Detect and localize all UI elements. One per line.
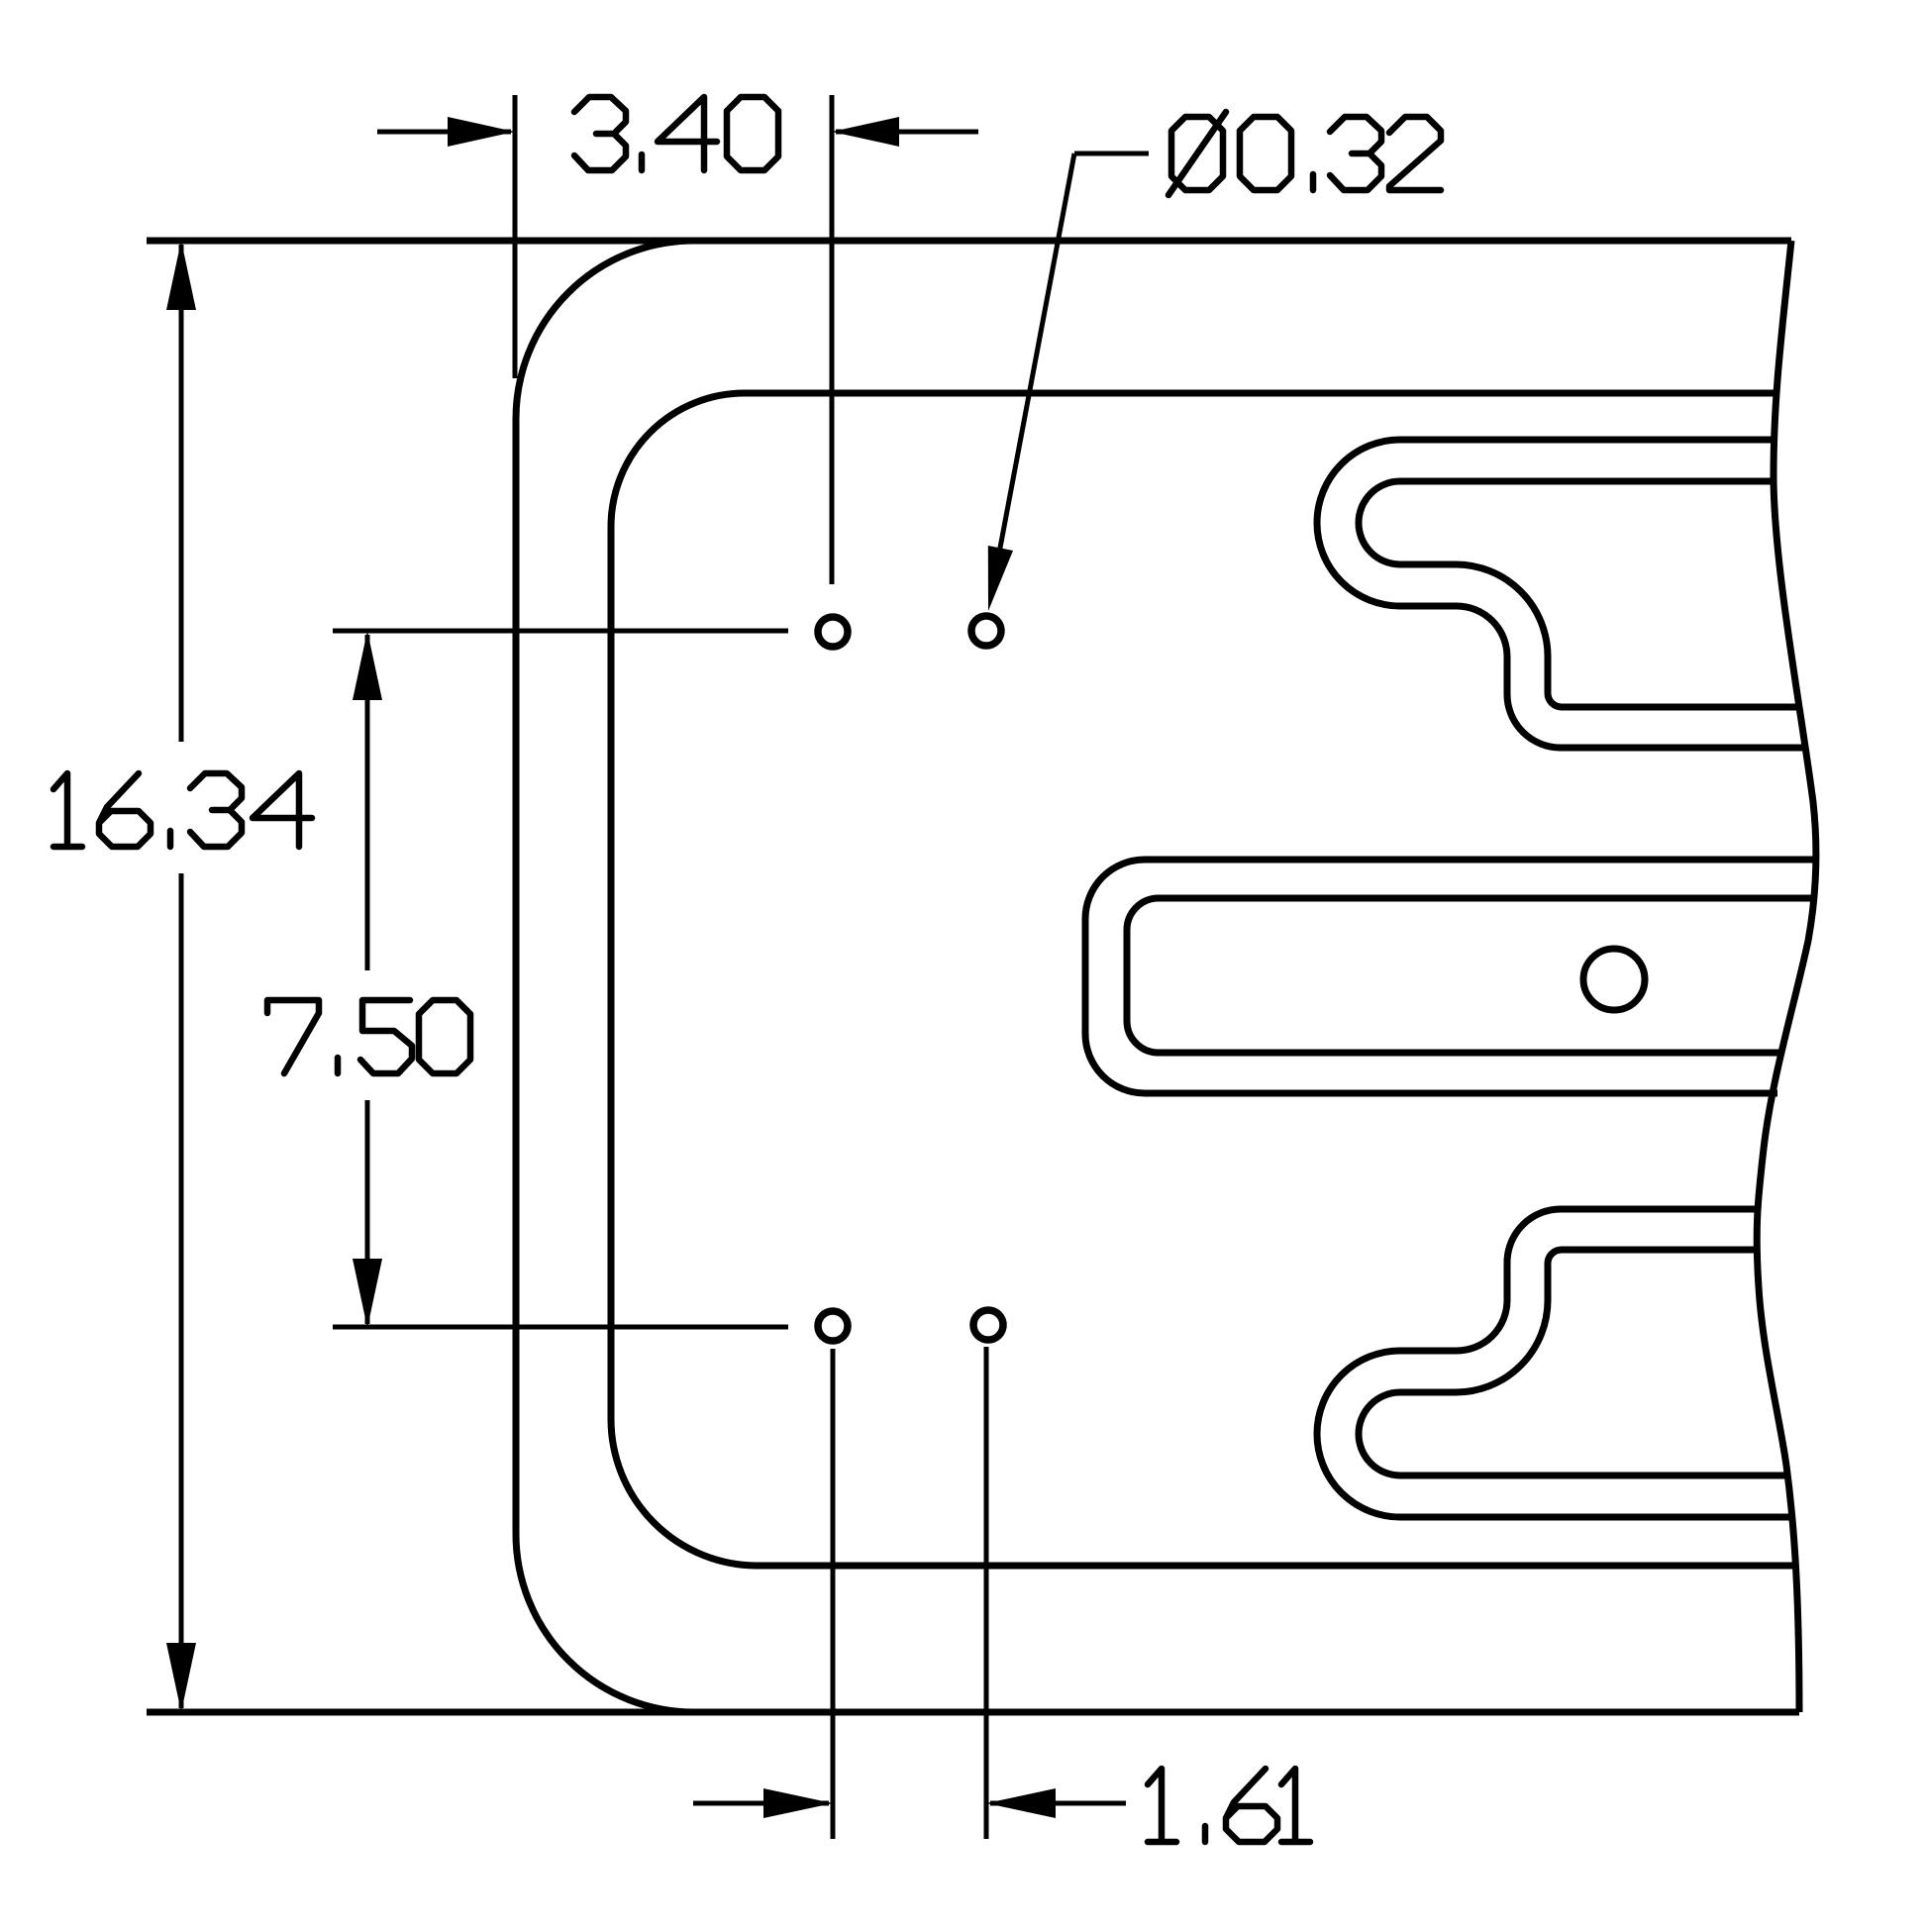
dim 3.40 left dimension line and arrow (377, 130, 511, 135)
hole lower-left (818, 1311, 848, 1341)
slot 2 circle hole (1583, 949, 1645, 1010)
dim 1.61 left extension line (831, 1349, 836, 1839)
dim text 1.61 (1148, 1769, 1310, 1842)
dim 7.50 dimension line lower segment and down arrow (365, 1100, 370, 1324)
dim text 3.40 (574, 97, 778, 170)
dim 16.34 dimension line lower segment and down arrow (179, 873, 184, 1708)
dim 3.40 left extension line (513, 95, 518, 378)
slot 2 inner contour (1127, 898, 1814, 1053)
break line (wavy right edge) (1757, 241, 1816, 1712)
leader Ø0.32 arrowhead (988, 546, 1013, 611)
dim 7.50 dimension line upper segment and up arrow (365, 635, 370, 970)
slot 3 inner contour (1359, 1250, 1784, 1475)
dim 16.34 top extension line (147, 238, 693, 245)
slot 1 outer contour (upper right stepped cutout) (1317, 440, 1806, 748)
dim 3.40 right extension line (830, 95, 835, 584)
dim text 16.34 (53, 773, 312, 847)
dim 1.61 left dimension line and arrow (693, 1801, 829, 1806)
dim 1.61 right dimension line and arrow (990, 1801, 1126, 1806)
slot 2 outer contour (middle slot) (1085, 860, 1815, 1093)
part outer profile (top edge, rounded left corners, bottom edge) (516, 241, 1799, 1712)
dim 1.61 right extension line (984, 1347, 989, 1839)
dim 16.34 dimension line upper segment and up arrow (179, 245, 184, 742)
hole lower-right (973, 1310, 1003, 1340)
dim 3.40 right dimension line and arrow (836, 130, 978, 135)
dim text 7.50 (267, 1000, 470, 1073)
slot 1 inner contour (1359, 481, 1796, 707)
leader Ø0.32 horizontal segment (1074, 152, 1149, 156)
dim 16.34 bottom extension line (147, 1709, 693, 1716)
hole upper-right (971, 616, 1001, 646)
hole upper-left (818, 617, 848, 647)
slot 3 outer contour (lower right stepped cutout) (1317, 1209, 1791, 1517)
part inner flange line (611, 393, 1796, 1566)
dim text Ø0.32 (1168, 112, 1441, 195)
dim 7.50 bottom extension line (333, 1325, 788, 1330)
leader Ø0.32 slanted segment (994, 153, 1074, 579)
dim 7.50 top extension line (333, 629, 788, 634)
